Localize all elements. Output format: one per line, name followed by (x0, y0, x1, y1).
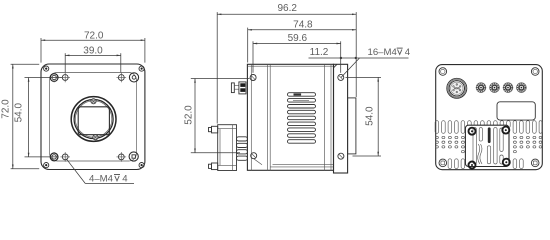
side body main (247, 64, 333, 170)
central clamp plate (465, 125, 509, 166)
bnc connector 2 (490, 83, 500, 93)
clamp screw top-left (469, 128, 476, 135)
svg-text:52.0: 52.0 (183, 105, 194, 125)
dimension 39.0 (front) (65, 46, 121, 73)
mount screw top (91, 99, 96, 104)
side front plate joint lines (251, 64, 331, 170)
side M4 screw front-top (250, 75, 256, 81)
svg-text:16–M4: 16–M4 (368, 47, 398, 58)
clamp screw bottom-left (469, 162, 476, 169)
dimension 54.0 (side right) (346, 77, 382, 156)
M4 hole bottom-left (60, 152, 70, 162)
bracket screw bottom (209, 163, 218, 170)
side vent slots (288, 93, 316, 144)
mount screw bottom (93, 135, 98, 140)
back hole grid right (513, 136, 541, 153)
svg-text:72.0: 72.0 (84, 31, 104, 42)
panel screw bottom-left (50, 152, 58, 162)
dimension 72.0 left (front) (1, 64, 40, 168)
corner screw bottom-left (44, 163, 49, 168)
svg-text:74.8: 74.8 (293, 19, 313, 30)
corner screw top-left (44, 66, 49, 71)
M4 hole top-right (117, 73, 127, 83)
back top vent slots right (513, 121, 542, 134)
lens mount rings (71, 97, 116, 142)
corner screw bottom-right (139, 163, 144, 168)
side M4 screw front-bottom (251, 153, 262, 165)
front view body outline (41, 64, 145, 170)
back corner screw top-right (531, 68, 539, 76)
svg-text:54.0: 54.0 (14, 103, 25, 123)
svg-text:54.0: 54.0 (365, 106, 376, 126)
side top-left small connector (231, 82, 246, 94)
square hole bottom-right (129, 152, 138, 161)
svg-text:72.0: 72.0 (1, 99, 12, 119)
svg-text:4: 4 (122, 173, 128, 184)
label plate (497, 102, 535, 120)
hirose connector (447, 78, 467, 98)
dimension 72.0 top (front) (41, 31, 145, 63)
back bottom vent slots left (448, 159, 465, 169)
back corner screw bottom-right (531, 159, 539, 167)
svg-text:4: 4 (405, 47, 411, 58)
bnc connector 4 (517, 83, 527, 93)
svg-text:11.2: 11.2 (310, 47, 329, 58)
leader 4-M4 depth 4 (66, 159, 134, 185)
bracket screw top (side view cylinder) (209, 126, 218, 133)
panel screw top-left (49, 73, 59, 83)
bracket fins (237, 137, 248, 161)
dimension 11.2 (309, 47, 409, 59)
dimension 59.6 (253, 33, 341, 73)
svg-text:96.2: 96.2 (277, 3, 297, 14)
svg-text:59.6: 59.6 (288, 33, 308, 44)
dimension 74.8 (248, 19, 357, 62)
back top vent slot stubs over clamp (468, 121, 511, 128)
corner screw top-right (139, 66, 144, 71)
sensor window (78, 107, 109, 135)
M4 hole bottom-right (117, 152, 127, 162)
side rear connector block (348, 98, 356, 154)
side bottom-left bracket (218, 125, 237, 171)
label 16-M4 depth 4 (341, 47, 411, 78)
dimension 52.0 (side left) (183, 79, 249, 153)
front inner panel (50, 73, 137, 162)
svg-text:39.0: 39.0 (83, 46, 103, 57)
dimension 96.2 (217, 3, 356, 123)
svg-text:4–M4: 4–M4 (89, 173, 114, 184)
clamp inner slots (473, 127, 503, 164)
M4 hole top-left (60, 73, 70, 83)
side M4 screw rear-top (338, 74, 344, 80)
back bottom vent slots right (513, 159, 523, 169)
back hole grid left (435, 136, 464, 153)
side M4 screw rear-bottom (338, 153, 344, 159)
side rear flange (334, 64, 348, 173)
back top vent slots left (435, 121, 465, 134)
back body outline (436, 65, 543, 170)
clamp screw bottom-right (503, 159, 510, 166)
bnc connector 1 (476, 83, 486, 93)
locating pin hole top-right (129, 73, 138, 82)
dimension 54.0 left (front) (14, 78, 62, 157)
back corner screw top-left (439, 68, 447, 76)
clamp screw top-right (502, 127, 509, 134)
back corner screw bottom-left (439, 159, 447, 167)
bnc connector 3 (503, 83, 513, 93)
